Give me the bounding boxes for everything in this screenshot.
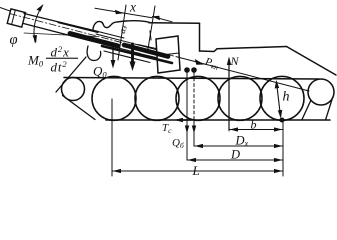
dimension D bbox=[187, 159, 283, 161]
svg-text:d2x: d2x bbox=[51, 44, 70, 60]
horizontal reference line for angle phi bbox=[24, 33, 97, 37]
svg-text:Qб: Qб bbox=[172, 137, 184, 150]
track rear lower run bbox=[302, 100, 311, 120]
recoil sleeve thick band upper bbox=[70, 34, 118, 47]
svg-text:h: h bbox=[283, 90, 290, 105]
x dim left arrowhead bbox=[115, 10, 124, 14]
rear idler wheel bbox=[308, 79, 334, 105]
hull rear slope bbox=[287, 47, 337, 76]
turret roof bbox=[149, 22, 200, 24]
road wheel 3 bbox=[176, 76, 220, 120]
rear contact extension vertical bbox=[282, 120, 284, 176]
track top run bbox=[64, 78, 319, 80]
hull glacis bbox=[56, 57, 86, 92]
breech mid line bbox=[157, 53, 179, 56]
svg-text:Q0: Q0 bbox=[93, 64, 107, 80]
road wheel 2 bbox=[135, 76, 179, 120]
recoil moment curved arrow bbox=[34, 6, 43, 43]
recoil cylinder lower band bbox=[102, 46, 172, 63]
displaced weight arrow bbox=[131, 44, 134, 65]
svg-text:x: x bbox=[129, 0, 136, 15]
trunnion dot B bbox=[191, 67, 197, 73]
weight Qb arrow 2 bbox=[192, 126, 196, 134]
gun barrel axis (dash-dot) bbox=[10, 14, 176, 57]
svg-text:M0: M0 bbox=[27, 53, 44, 69]
svg-text:b: b bbox=[251, 118, 257, 132]
friction force Tc arrow bbox=[177, 119, 191, 121]
vertical through dot A bbox=[186, 73, 188, 161]
track rear descent bbox=[326, 100, 333, 121]
front wheel extension vertical bbox=[111, 99, 113, 176]
hull deck bbox=[200, 47, 287, 52]
dimension b bbox=[229, 129, 283, 131]
force Q0 arrow bbox=[112, 43, 114, 64]
force P_kn arrowhead bbox=[195, 59, 205, 65]
wheel height h arrow bbox=[277, 82, 281, 117]
svg-text:L: L bbox=[192, 163, 200, 178]
recoil sleeve thick band right bbox=[124, 45, 168, 57]
breech block bbox=[156, 36, 180, 73]
dashed vertical through dot B bbox=[193, 73, 195, 121]
svg-text:N: N bbox=[230, 54, 240, 68]
barrel tube bbox=[24, 14, 99, 42]
ground line bbox=[106, 119, 330, 121]
rear contact dot bbox=[280, 118, 285, 123]
road wheel 5 bbox=[260, 76, 304, 120]
N/b extension vertical bbox=[228, 120, 230, 131]
barrel axis stub beyond muzzle bbox=[0, 8, 10, 12]
road wheel 1 bbox=[92, 76, 136, 120]
svg-text:Pкн: Pкн bbox=[203, 56, 221, 72]
figure: tank recoil diagram bbox=[0, 4, 336, 176]
gun mount small parts bbox=[137, 31, 156, 58]
svg-text:dt2: dt2 bbox=[51, 59, 68, 75]
x dimension line bbox=[95, 8, 172, 22]
x dim right arrowhead bbox=[152, 16, 161, 20]
track front lower run bbox=[63, 96, 96, 120]
mantlet curve bbox=[93, 21, 150, 30]
svg-text:Dх: Dх bbox=[235, 134, 249, 149]
front idler wheel bbox=[62, 78, 85, 101]
dimension Dx bbox=[194, 145, 283, 147]
svg-text:φ: φ bbox=[10, 32, 18, 48]
cradle lower edge bbox=[104, 51, 150, 63]
road wheel 4 bbox=[218, 76, 262, 120]
dimension L bbox=[112, 170, 283, 172]
x dimension extension line 1 bbox=[118, 5, 126, 60]
svg-text:D: D bbox=[230, 148, 240, 162]
fraction bar bbox=[46, 58, 78, 59]
muzzle brake bbox=[7, 9, 25, 27]
recoil force line of action bbox=[176, 57, 309, 91]
vertical extension for Dx bbox=[193, 120, 195, 146]
turret rear wall bbox=[199, 23, 201, 51]
svg-text:Tс: Tс bbox=[162, 122, 172, 135]
x dimension extension line 2 bbox=[148, 6, 156, 52]
barrel parallel detail lines bbox=[93, 32, 156, 54]
trunnion dot A bbox=[184, 67, 190, 73]
svg-text:аз: аз bbox=[117, 24, 129, 35]
normal reaction N arrow bbox=[228, 59, 230, 130]
cradle bracket hook bbox=[87, 46, 101, 61]
weight Qb arrow 1 bbox=[185, 126, 189, 134]
